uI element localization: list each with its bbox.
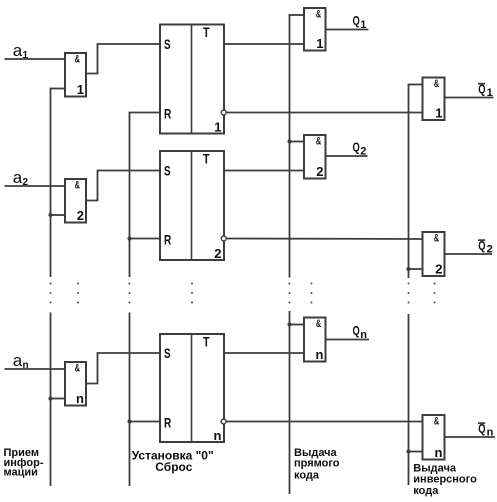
svg-text:1: 1	[487, 87, 493, 99]
wire: flip-flop n direct output to AND gate Qn	[224, 352, 304, 354]
wire: AND gate 2 output to S input of flip-flop 2	[86, 171, 160, 201]
wire: inverse-code strobe corner into AND gate Qb1	[408, 84, 423, 86]
output label Qn	[353, 323, 368, 341]
junction on reset line at flip-flop n	[127, 419, 131, 423]
direct-code strobe vertical line (upper)	[289, 15, 291, 278]
wire: reset-line branch to R input of flip-flop n	[130, 421, 161, 423]
svg-text:мации: мации	[4, 466, 38, 478]
wire: inverse-code strobe branch to AND gate Qbn	[409, 451, 423, 453]
output label Q-bar1	[478, 81, 493, 99]
junction on receive-strobe at AND gate n	[48, 396, 52, 400]
svg-text:R: R	[164, 231, 171, 247]
RS flip-flop 2 body	[160, 151, 224, 260]
wire: flip-flop 1 inverse output to AND gate Qb1	[226, 112, 422, 114]
label: Ustanovka 0 / Sbros	[132, 448, 214, 474]
AND gate n (input gate &)	[65, 362, 86, 406]
svg-text:n: n	[214, 428, 222, 443]
wire: receive-strobe branch to AND gate 2 pin 2	[51, 214, 66, 216]
ellipsis dots (continuation)	[50, 283, 436, 304]
svg-text:T: T	[203, 334, 210, 350]
AND gate 1 (input gate &)	[65, 53, 86, 97]
wire: direct-code strobe branch to AND gate Qn	[290, 324, 305, 326]
svg-text:Выдача: Выдача	[413, 462, 457, 474]
AND gate Qb1 (inverse code output)	[423, 78, 445, 121]
receive-strobe vertical line (lower)	[50, 313, 52, 487]
svg-text:a: a	[13, 41, 23, 60]
RS flip-flop 2 divider	[191, 151, 193, 260]
svg-text:Q: Q	[353, 140, 360, 155]
AND gate Qbn (inverse code output)	[423, 415, 445, 460]
wire: output Qb1	[445, 97, 494, 99]
AND gate Q2 (direct code output)	[304, 135, 326, 179]
output label Q-barn	[478, 421, 494, 439]
wire: receive-strobe corner into AND gate 1 pin 2	[50, 88, 65, 90]
svg-text:n: n	[76, 391, 84, 406]
svg-text:T: T	[203, 151, 210, 167]
svg-text:Q: Q	[478, 81, 485, 96]
RS flip-flop n body	[160, 334, 224, 442]
svg-text:n: n	[435, 445, 443, 460]
svg-text:2: 2	[435, 262, 442, 277]
wire: AND gate n output to S input of flip-flop n	[86, 353, 160, 384]
svg-text:R: R	[164, 414, 171, 430]
junction on direct-code strobe at gate Q2	[287, 139, 291, 143]
wire: receive-strobe branch to AND gate n pin 2	[51, 398, 66, 400]
AND gate Qb2 (inverse code output)	[423, 232, 445, 276]
svg-text:1: 1	[360, 19, 366, 31]
svg-text:инверсного: инверсного	[413, 474, 477, 486]
junction on inverse-code strobe at gate Qbn	[406, 449, 410, 453]
svg-text:&: &	[75, 54, 80, 66]
wire: flip-flop 2 direct output to AND gate Q2	[224, 170, 304, 172]
svg-text:S: S	[164, 162, 171, 178]
wire: input a1 to AND gate 1	[5, 58, 66, 60]
wire: inverse-code strobe branch to AND gate Qb2	[409, 268, 423, 270]
AND gate 2 (input gate &)	[65, 179, 86, 223]
junction on reset line at flip-flop 2	[127, 236, 131, 240]
direct-code strobe vertical line (lower)	[289, 311, 291, 494]
svg-text:S: S	[164, 36, 171, 52]
wire: reset-line corner into R input of flip-flop 1	[129, 112, 160, 114]
junction on inverse-code strobe at gate Qb2	[406, 267, 410, 271]
output label Q2	[353, 140, 367, 158]
input label an	[13, 351, 29, 371]
inversion bubble of flip-flop n	[221, 419, 226, 424]
svg-text:Q: Q	[478, 421, 485, 436]
inverse-code strobe vertical line (lower)	[408, 314, 410, 485]
svg-text:2: 2	[214, 246, 221, 261]
wire: flip-flop 1 direct output to AND gate Q1	[224, 43, 304, 45]
svg-text:n: n	[316, 347, 324, 362]
wire: AND gate 1 output to S input of flip-flop 1	[86, 44, 160, 74]
wire: input an to AND gate n	[5, 368, 66, 370]
svg-text:2: 2	[487, 244, 493, 256]
svg-text:Q: Q	[478, 238, 485, 253]
wire: direct-code strobe branch to AND gate Q2	[290, 141, 305, 143]
AND gate Q1 (direct code output)	[304, 8, 326, 51]
label: Priem informacii	[4, 447, 44, 478]
inversion bubble of flip-flop 1	[221, 110, 226, 115]
RS flip-flop 1 body	[160, 25, 224, 134]
svg-text:a: a	[13, 168, 23, 187]
RS flip-flop 1 divider	[191, 25, 193, 134]
svg-text:1: 1	[435, 106, 442, 121]
wire: output Q1	[326, 29, 369, 31]
svg-text:1: 1	[316, 36, 323, 51]
input label a1	[13, 41, 29, 61]
output label Q-bar2	[478, 238, 493, 256]
RS flip-flop n divider	[191, 334, 193, 442]
svg-text:2: 2	[360, 145, 366, 157]
reset vertical line (lower)	[129, 313, 131, 487]
AND gate Qn (direct code output)	[304, 318, 326, 362]
junction on receive-strobe at AND gate 2	[48, 213, 52, 217]
wire: output Qbn	[445, 436, 496, 438]
output label Q1	[353, 13, 367, 31]
label: Vydacha inversnogo koda	[413, 462, 477, 497]
svg-text:2: 2	[316, 164, 323, 179]
svg-text:кода: кода	[294, 469, 320, 481]
label: Vydacha pryamogo koda	[294, 447, 340, 481]
input label a2	[13, 168, 29, 188]
wire: flip-flop n inverse output to AND gate Qbn	[226, 421, 422, 423]
svg-text:Q: Q	[353, 13, 360, 28]
svg-text:Q: Q	[353, 323, 360, 338]
svg-text:&: &	[75, 180, 80, 192]
wire: reset-line branch to R input of flip-flop 2	[130, 238, 161, 240]
wire: output Qb2	[445, 253, 493, 255]
wire: input a2 to AND gate 2	[5, 185, 66, 187]
svg-text:n: n	[360, 329, 367, 341]
svg-text:2: 2	[77, 208, 84, 223]
svg-text:&: &	[316, 8, 321, 20]
wire: output Q2	[326, 155, 368, 157]
svg-text:&: &	[434, 232, 439, 244]
svg-text:прямого: прямого	[294, 457, 340, 469]
svg-text:&: &	[434, 415, 439, 427]
svg-text:1: 1	[77, 82, 84, 97]
wire: output Qn	[326, 339, 370, 341]
svg-text:T: T	[203, 24, 210, 40]
wire: direct-code strobe corner into AND gate Q1	[289, 14, 304, 16]
svg-text:1: 1	[214, 119, 221, 134]
junction on direct-code strobe at gate Qn	[287, 322, 291, 326]
svg-text:n: n	[487, 427, 494, 439]
inversion bubble of flip-flop 2	[221, 236, 226, 241]
svg-text:a: a	[13, 351, 23, 370]
wire: flip-flop 2 inverse output to AND gate Qb2	[226, 238, 422, 241]
svg-text:&: &	[434, 78, 439, 90]
inverse-code strobe vertical line (upper)	[408, 85, 410, 279]
svg-text:&: &	[316, 318, 321, 330]
svg-text:R: R	[164, 105, 171, 121]
reset vertical line (upper)	[129, 113, 131, 278]
svg-text:Сброс: Сброс	[155, 460, 192, 474]
svg-text:кода: кода	[413, 485, 439, 497]
receive-strobe vertical line (upper)	[50, 89, 52, 278]
svg-text:&: &	[316, 135, 321, 147]
svg-text:&: &	[75, 363, 80, 375]
svg-text:S: S	[164, 345, 171, 361]
